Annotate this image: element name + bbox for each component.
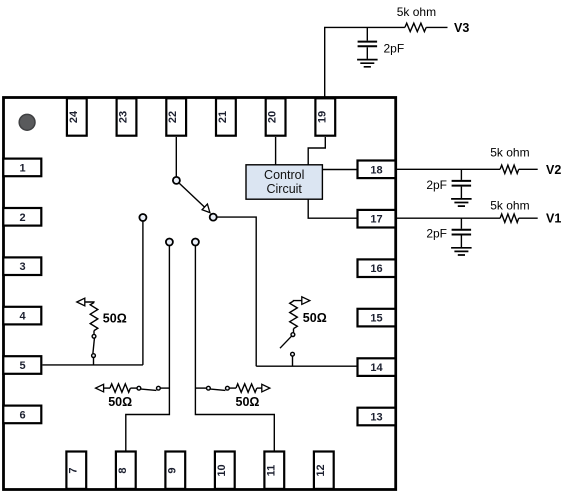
pin 2 <box>3 208 41 226</box>
ground (C1) <box>451 248 472 255</box>
switch SW5 contact b <box>226 386 230 390</box>
block U2 control circuit <box>246 165 322 199</box>
switch SW1 pole contact <box>173 177 180 184</box>
svg-text:8: 8 <box>117 467 129 473</box>
svg-text:21: 21 <box>217 111 229 123</box>
pin 22 <box>166 98 186 135</box>
port arrowhead (row2) <box>262 384 270 392</box>
svg-text:50Ω: 50Ω <box>108 395 132 409</box>
wire R7 to port arrow <box>257 387 262 389</box>
wire pin19 top to V3 node <box>325 27 405 96</box>
switch SW4 contact a <box>137 386 141 390</box>
svg-text:5k ohm: 5k ohm <box>490 146 529 160</box>
pin 24 <box>67 98 87 135</box>
switch SW5 blade <box>211 389 226 390</box>
wire arrow to R6 <box>104 387 110 389</box>
switch SW3 blade (open) <box>280 336 291 348</box>
svg-text:V2: V2 <box>546 163 561 177</box>
pin 4 <box>3 307 41 325</box>
wire pin19 to control circuit <box>308 137 325 165</box>
svg-text:50Ω: 50Ω <box>236 395 260 409</box>
svg-text:9: 9 <box>166 467 178 473</box>
svg-text:13: 13 <box>370 412 382 424</box>
switch SW2 contact b <box>92 354 96 358</box>
svg-text:10: 10 <box>216 464 228 476</box>
svg-text:2pF: 2pF <box>384 42 405 56</box>
pin 1 <box>3 159 41 177</box>
svg-text:V3: V3 <box>454 21 469 35</box>
svg-text:2pF: 2pF <box>426 227 447 241</box>
wire arrow to R4 <box>85 301 94 304</box>
node B open terminal <box>139 214 146 221</box>
wire SW5 to R7 <box>230 387 237 389</box>
capacitor C1 2pF <box>460 218 462 229</box>
pin 3 <box>3 257 41 275</box>
wire SW1 throw to pin14 rail <box>217 217 257 366</box>
pin 17 <box>358 210 396 228</box>
pin 13 <box>358 408 396 426</box>
resistor R5 50 ohm <box>290 301 298 329</box>
svg-text:19: 19 <box>316 111 328 123</box>
svg-text:24: 24 <box>68 110 80 123</box>
pin 18 <box>358 161 396 179</box>
switch SW2 blade <box>93 338 95 353</box>
svg-text:3: 3 <box>19 261 25 273</box>
resistor R2 5k ohm <box>500 165 519 173</box>
svg-text:14: 14 <box>370 362 383 374</box>
svg-text:Circuit: Circuit <box>266 182 302 196</box>
svg-text:4: 4 <box>19 311 26 323</box>
svg-text:15: 15 <box>370 313 382 325</box>
pin 11 <box>264 452 284 489</box>
svg-text:20: 20 <box>267 111 279 123</box>
svg-text:50Ω: 50Ω <box>303 311 327 325</box>
ground (C2) <box>451 199 472 206</box>
svg-text:6: 6 <box>19 409 25 421</box>
pin 9 <box>165 452 185 489</box>
pin 6 <box>3 406 41 424</box>
wire control circuit to pin17 <box>308 199 357 218</box>
wire node C to pin8 <box>126 246 170 452</box>
port arrowhead (left shunt) <box>77 298 85 306</box>
wire R1 to V1 terminal <box>519 217 538 219</box>
pin 16 <box>358 259 396 277</box>
svg-text:2: 2 <box>19 212 25 224</box>
svg-text:7: 7 <box>67 467 79 473</box>
resistor R4 50 ohm <box>90 303 98 331</box>
resistor R6 50 ohm <box>110 384 130 392</box>
svg-text:2pF: 2pF <box>426 178 447 192</box>
switch SW5 contact a <box>207 386 211 390</box>
wire SW4 to node C riser <box>161 387 170 389</box>
capacitor C2 2pF <box>460 169 462 180</box>
switch SW2 contact a <box>92 334 96 338</box>
svg-text:17: 17 <box>370 214 382 226</box>
wire node D riser to switch SW5 <box>195 387 206 389</box>
wire SW2 to pin5 rail <box>93 358 95 365</box>
switch SW1 blade <box>179 183 204 207</box>
wire pin17 to V1 node <box>397 217 500 219</box>
port arrowhead (row1) <box>96 384 104 392</box>
pin 12 <box>314 452 334 489</box>
pin 1 indicator dot <box>19 114 35 130</box>
svg-text:23: 23 <box>118 111 130 123</box>
switch SW4 blade <box>141 389 156 390</box>
svg-text:5k ohm: 5k ohm <box>397 5 436 19</box>
wire riser to node B <box>142 221 144 365</box>
wire arrow to R5 <box>294 300 302 302</box>
svg-text:22: 22 <box>167 111 179 123</box>
port arrowhead (right shunt) <box>302 297 310 305</box>
svg-text:16: 16 <box>370 263 382 275</box>
wire pin18 to V2 node <box>397 168 500 170</box>
pin 8 <box>116 452 136 489</box>
IC package body U1 (QFN-24 outline) <box>4 98 396 490</box>
wire R4 to switch SW2 <box>93 331 95 335</box>
resistor R1 5k ohm <box>500 214 519 222</box>
capacitor C3 2pF <box>366 27 368 40</box>
pin 10 <box>215 452 235 489</box>
node C open terminal <box>166 239 173 246</box>
wire R3 to V3 terminal <box>426 26 447 28</box>
svg-text:50Ω: 50Ω <box>103 311 127 325</box>
wire SW3 to pin14 rail <box>292 356 294 366</box>
wire pin5 rail <box>43 364 143 366</box>
wire pin20 to control circuit <box>275 137 277 165</box>
pin 15 <box>358 309 396 327</box>
resistor R3 5k ohm <box>405 23 426 31</box>
switch SW1 arrowhead <box>202 204 210 213</box>
pin 21 <box>216 98 236 135</box>
wire R6 to switch SW4 <box>130 387 136 389</box>
pin 20 <box>266 98 286 135</box>
wire control circuit to pin18 <box>322 169 357 171</box>
wire node D to pin11 <box>195 246 274 452</box>
resistor R7 50 ohm <box>236 384 257 392</box>
wire R5 to switch SW3 <box>293 329 295 333</box>
pin 23 <box>117 98 137 135</box>
svg-text:12: 12 <box>315 464 327 476</box>
wire pin22 to switch SW1 pole <box>175 137 177 177</box>
svg-text:18: 18 <box>370 164 382 176</box>
pin 19 <box>315 98 335 135</box>
svg-text:11: 11 <box>265 465 277 477</box>
pin 5 <box>3 356 41 374</box>
switch SW1 throw contact <box>210 214 217 221</box>
ground (C3) <box>357 60 378 67</box>
switch SW4 contact b <box>157 386 161 390</box>
wire pin14 rail <box>256 365 357 367</box>
svg-text:1: 1 <box>19 162 25 174</box>
switch SW3 contact a <box>291 333 295 337</box>
pin 7 <box>66 452 86 489</box>
wire R2 to V2 terminal <box>519 168 538 170</box>
svg-text:V1: V1 <box>546 212 561 226</box>
node D open terminal <box>192 239 199 246</box>
svg-text:5: 5 <box>19 360 25 372</box>
switch SW3 contact b <box>291 352 295 356</box>
svg-text:5k ohm: 5k ohm <box>490 199 529 213</box>
svg-text:Control: Control <box>264 168 304 182</box>
pin 14 <box>358 358 396 376</box>
